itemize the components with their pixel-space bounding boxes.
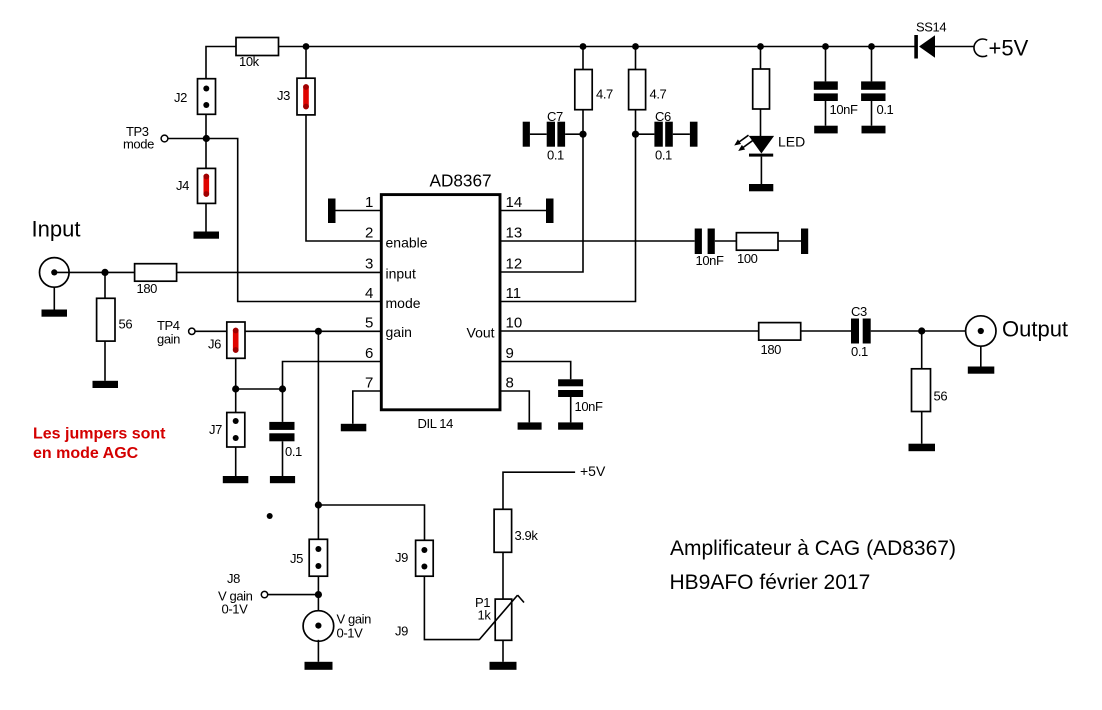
node junction C6: [632, 131, 639, 138]
svg-text:0.1: 0.1: [547, 148, 564, 163]
jumper J3 (red shunt installed): [297, 78, 315, 115]
jumper J5: [309, 539, 327, 576]
svg-text:10: 10: [506, 315, 523, 332]
testpoint TP3: [161, 135, 168, 142]
node junction input: [101, 269, 108, 276]
svg-text:input: input: [386, 266, 416, 282]
svg-text:4.7: 4.7: [650, 87, 667, 102]
svg-text:7: 7: [365, 375, 373, 392]
ground pin 7: [341, 424, 367, 432]
ground below J7: [223, 476, 249, 483]
svg-text:100: 100: [737, 251, 758, 266]
svg-text:J6: J6: [208, 337, 221, 352]
wire 180 to IC pin 3 (input net): [177, 271, 381, 273]
resistor R 4.7 (C7 branch): [575, 70, 592, 110]
wire J6 bottom to C 0.1: [236, 388, 283, 390]
pin 7 stub to ground: [353, 391, 381, 424]
svg-text:J2: J2: [174, 90, 187, 105]
resistor R 180 (output): [759, 323, 801, 341]
wire P1 to ground: [502, 640, 504, 662]
wire +5V to 3.9k: [503, 472, 575, 509]
svg-text:0-1V: 0-1V: [337, 626, 364, 641]
wire V gain BNC to ground: [317, 640, 319, 662]
capacitor 10nF (pin13): [695, 229, 715, 255]
node junction 10nF decoupling branch: [822, 43, 829, 50]
wire J5 to V gain BNC: [317, 576, 319, 625]
svg-text:gain: gain: [386, 324, 412, 340]
svg-text:9: 9: [506, 345, 514, 362]
wire J8 to node: [268, 594, 318, 596]
svg-text:C3: C3: [851, 304, 867, 319]
svg-text:V gain: V gain: [337, 612, 372, 627]
node junction gain/J5/J9: [315, 501, 322, 508]
terminal bar pin13 net: [801, 229, 808, 255]
capacitor C7 0.1: [523, 122, 583, 147]
svg-text:12: 12: [506, 256, 523, 273]
LED D2: [734, 135, 774, 156]
resistor R 180 (input): [135, 264, 177, 282]
svg-text:2: 2: [365, 225, 373, 242]
capacitor 10nF decoupling: [814, 47, 838, 134]
wire R100 to terminal: [778, 240, 801, 242]
svg-text:LED: LED: [778, 134, 805, 150]
svg-text:3.9k: 3.9k: [515, 528, 539, 543]
node junction 0.1 decoupling branch: [868, 43, 875, 50]
wire 3.9k to P1: [502, 552, 504, 599]
svg-text:6: 6: [365, 345, 373, 362]
svg-text:J8: J8: [227, 571, 240, 586]
wire node to J9: [318, 505, 424, 540]
svg-text:J3: J3: [277, 88, 290, 103]
stray junction dot: [267, 513, 273, 519]
svg-text:HB9AFO février 2017: HB9AFO février 2017: [670, 571, 871, 594]
node junction C7: [579, 131, 586, 138]
resistor R 56 (input): [97, 272, 115, 380]
ground pin 8: [518, 422, 542, 429]
svg-text:mode: mode: [123, 137, 154, 152]
wire J6 to IC pin 5 (gain net): [245, 330, 381, 332]
svg-text:4: 4: [365, 285, 373, 302]
svg-text:56: 56: [934, 389, 948, 404]
wire TP3 to node: [168, 138, 206, 140]
wire input BNC to node: [54, 271, 134, 273]
svg-text:enable: enable: [386, 235, 428, 251]
svg-text:1k: 1k: [478, 608, 492, 623]
ground below J4: [194, 232, 220, 239]
node junction C7 branch: [580, 43, 587, 50]
svg-text:0.1: 0.1: [851, 344, 868, 359]
svg-text:en mode AGC: en mode AGC: [33, 445, 139, 462]
svg-text:3: 3: [365, 256, 373, 273]
node junction LED branch: [757, 43, 764, 50]
svg-text:56: 56: [119, 317, 133, 332]
node junction pin6/C0.1: [279, 385, 286, 392]
pin 1 stub and terminal bar: [328, 199, 381, 224]
wire pin 10 Vout net: [500, 330, 759, 332]
svg-text:Les jumpers sont: Les jumpers sont: [33, 426, 166, 443]
wire J7 to ground: [235, 447, 237, 476]
resistor R 10k: [236, 38, 279, 56]
svg-text:Output: Output: [1002, 317, 1068, 342]
svg-text:SS14: SS14: [916, 20, 946, 35]
svg-text:gain: gain: [157, 332, 180, 347]
ground below input BNC: [42, 287, 68, 317]
wire LED to ground: [760, 157, 762, 184]
svg-text:0.1: 0.1: [877, 102, 894, 117]
svg-text:11: 11: [506, 285, 522, 302]
node junction output: [918, 327, 925, 334]
svg-text:DIL 14: DIL 14: [418, 416, 454, 431]
pin 14 stub and terminal bar: [500, 199, 554, 224]
wire C3 to output node: [871, 330, 981, 332]
wire diode to +5V connector: [935, 46, 975, 48]
node junction J3 top: [303, 43, 310, 50]
svg-text:mode: mode: [386, 295, 421, 311]
svg-text:AD8367: AD8367: [430, 171, 492, 191]
potentiometer P1 1k: [479, 595, 524, 640]
svg-text:0.1: 0.1: [285, 444, 302, 459]
testpoint J8: [261, 591, 267, 597]
svg-text:Input: Input: [32, 217, 81, 242]
svg-text:14: 14: [506, 194, 523, 211]
wire pin 13 net: [500, 240, 695, 242]
wire pin 8 to ground: [500, 391, 529, 422]
wire +5V top rail main segment: [279, 46, 916, 48]
wire +5V top rail left segment: [206, 47, 236, 79]
resistor R 4.7 (C6 branch): [629, 70, 646, 110]
svg-text:13: 13: [506, 225, 523, 242]
ground below 56 (output): [909, 444, 936, 452]
jumper J2: [198, 79, 216, 115]
resistor R 3.9k: [494, 509, 512, 552]
connector Output BNC: [966, 316, 996, 346]
resistor R 56 (output): [912, 331, 931, 444]
svg-text:1: 1: [365, 194, 373, 211]
node junction C6 branch: [632, 43, 639, 50]
ground below P1: [490, 662, 517, 670]
wire J3 top to rail: [305, 47, 307, 79]
svg-text:C7: C7: [547, 109, 563, 124]
svg-text:10nF: 10nF: [696, 253, 724, 268]
wire pin 9 net to 10nF: [500, 362, 571, 380]
svg-text:180: 180: [761, 342, 782, 357]
svg-text:5: 5: [365, 315, 373, 332]
jumper J7: [227, 413, 245, 448]
resistor R 100: [736, 233, 778, 251]
diode D1 SS14: [914, 35, 935, 59]
svg-text:10k: 10k: [239, 54, 260, 69]
wire J2 to node TP3: [205, 114, 207, 168]
svg-text:J4: J4: [176, 178, 189, 193]
resistor R LED series: [753, 47, 770, 137]
wire J4 to ground: [205, 203, 207, 231]
ground below V gain BNC: [305, 662, 333, 670]
svg-text:C6: C6: [655, 109, 671, 124]
svg-text:8: 8: [506, 375, 514, 392]
capacitor C6 0.1: [636, 122, 698, 147]
node junction TP3/mode: [203, 135, 210, 142]
node junction J6 bottom: [232, 385, 239, 392]
svg-text:Vout: Vout: [467, 325, 495, 341]
wire IC pin 6 net: [283, 362, 382, 390]
svg-text:0-1V: 0-1V: [222, 602, 249, 617]
svg-text:+5V: +5V: [989, 36, 1029, 61]
wire J3 to IC pin 2 (enable net): [306, 115, 381, 241]
capacitor C 0.1 (gain): [269, 389, 294, 476]
wire pin 12 net to C7 node: [500, 47, 583, 273]
op-amp/IC U1 AD8367 body: [381, 195, 500, 410]
svg-text:10nF: 10nF: [575, 399, 603, 414]
wire node to J5: [317, 505, 319, 539]
svg-text:Amplificateur à CAG (AD8367): Amplificateur à CAG (AD8367): [670, 537, 956, 560]
node junction J8: [315, 591, 322, 598]
svg-text:J9: J9: [395, 550, 408, 565]
ground below output BNC: [968, 346, 995, 374]
testpoint TP4: [189, 328, 195, 334]
jumper J4 (red shunt installed): [198, 168, 216, 203]
capacitor 0.1 decoupling: [861, 47, 885, 134]
connector +5V terminal: [974, 39, 987, 57]
wire TP4 to J6: [195, 330, 227, 332]
wire pin 11 net to C6 node: [500, 47, 636, 302]
wire J9 down to P1 wiper: [424, 576, 479, 639]
ground below LED: [749, 184, 773, 191]
capacitor 10nF (pin9): [558, 379, 583, 429]
svg-text:+5V: +5V: [580, 463, 606, 479]
svg-text:J7: J7: [209, 422, 222, 437]
wire mode net: node to IC pin 4: [206, 139, 381, 302]
svg-text:0.1: 0.1: [655, 148, 672, 163]
svg-text:J9: J9: [395, 624, 408, 639]
ground below C 0.1: [270, 476, 295, 483]
node junction gain: [315, 328, 322, 335]
svg-text:J5: J5: [290, 551, 303, 566]
svg-text:4.7: 4.7: [596, 87, 613, 102]
wire cap to R100: [715, 240, 737, 242]
connector V gain BNC: [303, 611, 334, 642]
svg-text:180: 180: [137, 281, 158, 296]
capacitor C3 0.1: [851, 319, 871, 344]
wire J6 bottom down: [235, 358, 237, 412]
wire gain net down: [317, 331, 319, 505]
connector Input BNC: [40, 258, 70, 288]
svg-text:10nF: 10nF: [830, 102, 858, 117]
ground below 56: [93, 381, 119, 388]
jumper J9: [416, 540, 434, 576]
jumper J6 (red shunt installed): [227, 322, 245, 358]
wire 180 to C3: [801, 330, 851, 332]
